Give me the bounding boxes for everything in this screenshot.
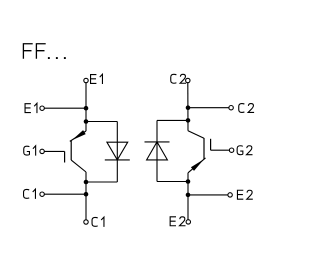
transistor T1 emitter arrow xyxy=(72,130,86,140)
junction diode D2 bottom node xyxy=(186,179,191,184)
diode D1 vertical wire xyxy=(116,122,118,183)
junction E2 node xyxy=(186,193,191,198)
transistor T1 gate lead xyxy=(44,150,64,152)
terminal E2 (bottom) xyxy=(186,220,190,224)
wire rail to diode D1 anode xyxy=(86,121,117,123)
wire collector of T1 down to C1 bottom xyxy=(85,172,87,220)
diode D2 triangle (anode bottom, pointing up) xyxy=(147,142,168,160)
diode D1 cathode bar xyxy=(105,159,130,161)
transistor T2 emitter lead (slant) xyxy=(188,158,206,173)
junction diode D1 bottom node xyxy=(84,180,89,185)
terminal C2 (top) xyxy=(186,78,190,82)
diode D1 triangle (anode top, pointing down) xyxy=(107,142,128,160)
transistor T2 gate lead xyxy=(211,149,230,151)
transistor T2 emitter arrow xyxy=(191,159,204,171)
transistor T2 gate bar xyxy=(210,139,212,150)
diode D2 cathode bar xyxy=(145,141,170,143)
wire C2 top down to collector of T2 xyxy=(187,83,189,131)
transistor T1 collector lead (slant) xyxy=(71,160,86,172)
junction diode D1 top node xyxy=(84,119,89,124)
label G1 xyxy=(24,146,36,156)
wire emitter of T2 down to E2 bottom xyxy=(187,173,189,220)
wire C1 left to rail xyxy=(44,193,86,195)
label C1 (left terminal) xyxy=(24,189,36,199)
terminal E2 (right) xyxy=(228,193,232,197)
terminal C1 (bottom) xyxy=(84,220,88,224)
label C2 (top terminal) xyxy=(171,74,186,83)
label C1 (bottom terminal) xyxy=(92,217,104,227)
diode D2 vertical wire xyxy=(156,120,158,181)
module title FF... xyxy=(23,43,66,59)
junction C2 node xyxy=(186,105,191,110)
terminal E1 (left) xyxy=(40,106,44,110)
wire diode D2 anode to rail xyxy=(157,181,188,183)
transistor T2 collector lead (slant) xyxy=(188,131,204,139)
transistor T1 gate bar xyxy=(64,151,66,162)
label G2 xyxy=(237,146,252,155)
label E1 (top terminal) xyxy=(90,74,102,84)
label E2 (bottom terminal) xyxy=(170,216,186,226)
wire rail to C2 right terminal xyxy=(188,107,229,109)
junction E1 node xyxy=(84,106,89,111)
junction diode D2 top node xyxy=(186,118,191,123)
terminal G2 xyxy=(229,148,233,152)
terminal E1 (top) xyxy=(84,78,88,82)
terminal G1 xyxy=(40,149,44,153)
label C2 (right terminal) xyxy=(239,104,254,113)
wire diode D2 cathode to rail xyxy=(157,119,188,121)
label E2 (right terminal) xyxy=(237,190,253,200)
wire E1 top down to emitter of T1 xyxy=(85,83,87,131)
wire rail to diode D1 cathode xyxy=(86,181,117,183)
wire rail to E2 right terminal xyxy=(188,194,228,196)
label E1 (left terminal) xyxy=(25,103,37,113)
terminal C1 (left) xyxy=(40,192,44,196)
terminal C2 (right) xyxy=(229,106,233,110)
transistor T1 emitter lead (slant) xyxy=(70,131,86,141)
junction C1 node xyxy=(84,192,89,197)
transistor T1 body bar xyxy=(70,140,72,160)
transistor T2 body bar xyxy=(203,138,205,159)
wire E1 left to rail xyxy=(44,107,86,109)
